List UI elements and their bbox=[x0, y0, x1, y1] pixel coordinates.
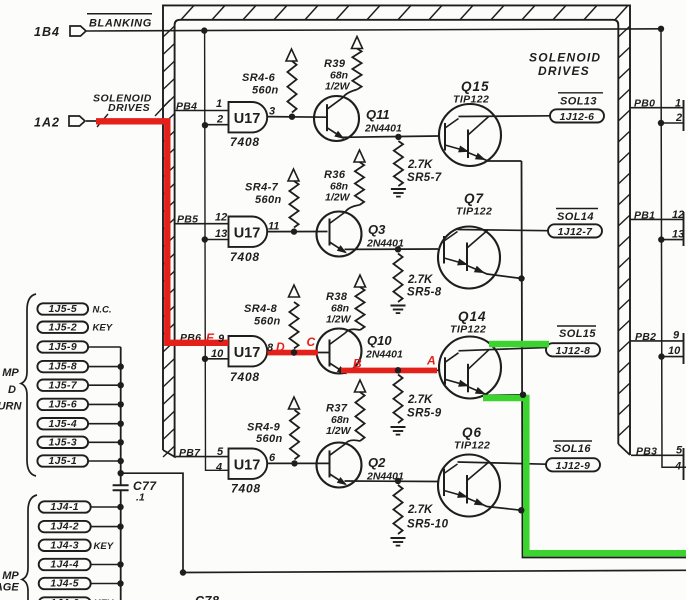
svg-text:2N4401: 2N4401 bbox=[364, 123, 402, 135]
node Q7 emitter junction bbox=[518, 275, 524, 281]
svg-text:7408: 7408 bbox=[231, 482, 261, 496]
wire TIP emitter return bus bbox=[522, 161, 686, 558]
and-gate U17a bbox=[229, 102, 268, 132]
svg-text:R39: R39 bbox=[324, 58, 346, 70]
svg-text:SR5-10: SR5-10 bbox=[407, 519, 449, 531]
svg-text:1J4-4: 1J4-4 bbox=[50, 560, 79, 571]
svg-text:Q10: Q10 bbox=[367, 333, 392, 348]
svg-text:D: D bbox=[8, 384, 16, 396]
svg-text:1J5-5: 1J5-5 bbox=[48, 304, 77, 315]
node pin13 junction bbox=[202, 236, 208, 242]
svg-text:A: A bbox=[426, 354, 436, 368]
resistor R39 68 1/2W bbox=[352, 49, 361, 90]
svg-text:SR4-9: SR4-9 bbox=[247, 422, 281, 434]
svg-text:R38: R38 bbox=[326, 291, 348, 303]
svg-text:SR5-9: SR5-9 bbox=[407, 408, 442, 420]
ground SR5-10 bbox=[391, 537, 406, 539]
brace 1J4 group bbox=[22, 495, 37, 600]
svg-text:MP: MP bbox=[2, 367, 19, 379]
pad 1J12-6 bbox=[550, 109, 604, 122]
pad 1J4-6 (clipped) bbox=[39, 597, 91, 600]
svg-text:SOL15: SOL15 bbox=[559, 328, 596, 340]
wire Q3 emitter to Q7 base bbox=[345, 248, 439, 250]
svg-text:1J4-5: 1J4-5 bbox=[50, 579, 79, 590]
svg-text:10: 10 bbox=[668, 345, 681, 357]
svg-text:R36: R36 bbox=[324, 169, 346, 181]
svg-text:1/2W: 1/2W bbox=[325, 192, 351, 204]
connector board-edge hatching bbox=[163, 5, 630, 455]
svg-text:1J4-1: 1J4-1 bbox=[50, 502, 79, 513]
svg-text:8: 8 bbox=[267, 342, 274, 354]
resistor SR4-7 560 bbox=[289, 181, 298, 228]
svg-text:4: 4 bbox=[674, 461, 681, 473]
svg-text:Q6: Q6 bbox=[462, 425, 482, 440]
wire blanking right pin 10 bbox=[662, 356, 684, 358]
svg-text:3: 3 bbox=[269, 106, 275, 118]
pad 1J12-8 bbox=[546, 343, 600, 356]
wire Q2 emitter to Q6 base bbox=[345, 480, 439, 483]
pad 1J5-2 bbox=[37, 322, 88, 333]
node Q3 base pull-up bbox=[291, 228, 297, 234]
svg-text:1J12-6: 1J12-6 bbox=[560, 112, 595, 123]
svg-text:1/2W: 1/2W bbox=[325, 81, 351, 93]
svg-text:4: 4 bbox=[215, 462, 222, 474]
wire blanking to U17 pin 13 bbox=[205, 239, 229, 241]
arrow 1B4 bbox=[70, 26, 86, 36]
wire blanking right pin 2 bbox=[661, 122, 684, 124]
node blanking-right junction bbox=[658, 26, 664, 32]
svg-text:11: 11 bbox=[268, 221, 279, 233]
svg-text:AGE: AGE bbox=[0, 582, 19, 594]
and-gate U17b bbox=[229, 217, 268, 247]
wire blanking vertical right bus bbox=[661, 29, 686, 468]
wire U17c out to Q10 base bbox=[268, 352, 330, 354]
svg-text:1: 1 bbox=[216, 98, 222, 110]
node right pin13 junction bbox=[658, 236, 664, 242]
pad 1J4-3 bbox=[39, 540, 91, 551]
pad 1J4-4 bbox=[39, 559, 91, 570]
svg-text:B: B bbox=[353, 357, 362, 371]
resistor SR5-9 2.7K bbox=[393, 375, 402, 424]
resistor R36 68 1/2W bbox=[355, 162, 364, 205]
wire PB7 to U17 pin 5 bbox=[176, 456, 229, 458]
node SR5-8 junction bbox=[395, 246, 401, 252]
ground SR5-7 bbox=[391, 188, 406, 190]
svg-text:U17: U17 bbox=[234, 111, 261, 127]
svg-text:1J4-2: 1J4-2 bbox=[50, 522, 79, 533]
svg-text:2N4401: 2N4401 bbox=[365, 349, 403, 361]
resistor SR4-6 560 bbox=[287, 61, 296, 113]
highlight red U17 out to Q10 base bbox=[268, 350, 319, 356]
ground SR5-9 bbox=[391, 426, 406, 428]
node blanking-left junction bbox=[201, 27, 207, 33]
and-gate U17c bbox=[229, 336, 268, 366]
svg-text:560n: 560n bbox=[254, 316, 281, 328]
wire entry chamfer bbox=[97, 114, 108, 127]
svg-text:9: 9 bbox=[218, 333, 225, 345]
node 1J5 bus to C77 branch bbox=[118, 470, 124, 476]
pad 1J5-3 bbox=[37, 437, 88, 448]
wire Q10 emitter to Q14 base bbox=[345, 369, 440, 371]
svg-text:SOL14: SOL14 bbox=[557, 211, 594, 223]
pad 1J5-6 bbox=[37, 399, 88, 410]
resistor SR4-9 560 bbox=[290, 410, 299, 459]
svg-text:1B4: 1B4 bbox=[34, 25, 60, 39]
highlight red trace 1A2 to U17 pin9 bbox=[96, 121, 229, 342]
svg-text:5: 5 bbox=[217, 446, 224, 458]
svg-text:Q14: Q14 bbox=[458, 309, 487, 324]
wire PB4 to U17 pin 1 bbox=[175, 110, 229, 112]
node SR5-7 junction bbox=[395, 134, 401, 140]
resistor SR5-8 2.7K bbox=[393, 254, 402, 303]
svg-text:1J5-8: 1J5-8 bbox=[48, 362, 77, 373]
and-gate U17d bbox=[229, 449, 268, 479]
pad 1J12-7 bbox=[548, 224, 602, 237]
pad 1J5-8 bbox=[37, 361, 88, 372]
svg-text:10: 10 bbox=[211, 348, 224, 360]
svg-text:DRIVES: DRIVES bbox=[108, 102, 150, 114]
wire branch to bottom rail bbox=[121, 473, 183, 572]
svg-text:N.C.: N.C. bbox=[93, 305, 112, 316]
svg-text:1J12-8: 1J12-8 bbox=[556, 346, 591, 357]
svg-text:2.7K: 2.7K bbox=[407, 159, 433, 171]
node pin10 junction bbox=[202, 356, 208, 362]
pad 1J4-5 bbox=[39, 578, 91, 589]
svg-text:.1: .1 bbox=[136, 492, 145, 504]
svg-text:1J5-7: 1J5-7 bbox=[48, 380, 77, 391]
node right pin2 junction bbox=[658, 120, 664, 126]
wire PB1 input bbox=[630, 218, 684, 220]
svg-text:BLANKING: BLANKING bbox=[89, 18, 152, 30]
svg-text:2: 2 bbox=[216, 114, 223, 126]
svg-text:2.7K: 2.7K bbox=[407, 274, 433, 286]
svg-text:1J12-9: 1J12-9 bbox=[556, 461, 591, 472]
svg-text:SR5-8: SR5-8 bbox=[407, 287, 442, 299]
pad 1J5-1 bbox=[37, 455, 88, 466]
svg-text:C78: C78 bbox=[195, 594, 219, 600]
node Q14 emitter junction bbox=[520, 392, 526, 398]
node Q10 pull-up (over red) bbox=[291, 349, 297, 355]
wire Q11 emitter to Q15 base bbox=[342, 136, 439, 137]
svg-text:1J12-7: 1J12-7 bbox=[558, 227, 594, 238]
svg-text:7408: 7408 bbox=[230, 135, 260, 149]
pad 1J4-1 bbox=[39, 501, 91, 512]
wire 1A2 entry bbox=[86, 120, 98, 122]
svg-text:13: 13 bbox=[215, 228, 227, 240]
node bottom rail junction bbox=[180, 569, 186, 575]
node Q2 base pull-up bbox=[291, 460, 297, 466]
svg-text:TIP122: TIP122 bbox=[450, 324, 486, 336]
transistor Q6 bbox=[438, 455, 500, 517]
svg-text:7408: 7408 bbox=[230, 370, 260, 384]
node SR5-9 junction (over red) bbox=[395, 367, 401, 373]
wire blanking right pin 13 bbox=[661, 239, 683, 241]
svg-text:TIP122: TIP122 bbox=[453, 94, 489, 106]
wire U17d out to Q2 base bbox=[268, 462, 329, 464]
svg-text:1A2: 1A2 bbox=[34, 116, 60, 130]
wire U17b out to Q3 base bbox=[268, 231, 328, 233]
svg-text:DRIVES: DRIVES bbox=[538, 64, 590, 78]
wire PB3 input bbox=[631, 454, 684, 456]
pad 1J4-2 bbox=[39, 521, 91, 532]
wire 1J5 return bus bbox=[120, 347, 122, 485]
resistor R37 68 1/2W bbox=[355, 392, 364, 441]
svg-text:E: E bbox=[206, 331, 215, 345]
svg-text:1J5-1: 1J5-1 bbox=[48, 456, 77, 467]
ground SR5-8 bbox=[391, 305, 406, 307]
svg-text:12: 12 bbox=[672, 209, 684, 221]
svg-text:SOLENOID: SOLENOID bbox=[529, 51, 601, 65]
node SR5-10 junction bbox=[395, 478, 401, 484]
brace 1J5 group bbox=[21, 294, 36, 476]
gate edge (right row1) bbox=[683, 100, 685, 131]
wire PB2 input bbox=[630, 340, 684, 342]
transistor Q11 bbox=[314, 96, 359, 141]
wire blanking to U17 pin 2 bbox=[205, 124, 229, 126]
svg-text:TIP122: TIP122 bbox=[454, 440, 490, 452]
resistor SR5-7 2.7K bbox=[394, 141, 403, 186]
node Q14 emitter junction (over green) bbox=[520, 392, 526, 398]
wire PB6 to U17 pin 9 bbox=[175, 342, 229, 344]
gate edge (right row4) bbox=[683, 448, 685, 480]
pad 1J12-9 bbox=[546, 458, 600, 471]
svg-text:C: C bbox=[307, 335, 316, 349]
svg-text:5: 5 bbox=[676, 445, 683, 457]
node SR5-9 junction bbox=[395, 367, 401, 373]
node Q10 base pull-up bbox=[291, 349, 297, 355]
wire blanking vertical left bus bbox=[205, 31, 229, 471]
transistor Q14 bbox=[439, 337, 501, 399]
svg-text:MP: MP bbox=[2, 570, 19, 582]
svg-text:1J5-3: 1J5-3 bbox=[48, 437, 77, 448]
svg-text:560n: 560n bbox=[256, 433, 283, 445]
arrow 1A2 bbox=[69, 116, 85, 126]
transistor Q7 bbox=[438, 227, 500, 289]
svg-text:SOL13: SOL13 bbox=[560, 96, 597, 108]
wire U17a out to Q11 base bbox=[268, 116, 328, 119]
svg-text:SOL16: SOL16 bbox=[554, 443, 591, 455]
node pin2 junction bbox=[202, 122, 208, 128]
transistor Q15 bbox=[439, 104, 501, 166]
resistor SR5-10 2.7K bbox=[393, 485, 402, 534]
node Q6 emitter junction (over green) bbox=[518, 507, 524, 513]
svg-text:KEY: KEY bbox=[93, 323, 114, 334]
svg-text:U17: U17 bbox=[234, 345, 261, 361]
resistor SR4-8 560 bbox=[289, 302, 298, 349]
svg-text:2: 2 bbox=[675, 112, 682, 124]
svg-text:1/2W: 1/2W bbox=[326, 425, 352, 437]
wire BLANKING 1B4 to right bus bbox=[87, 29, 662, 31]
svg-text:1J4-3: 1J4-3 bbox=[50, 540, 79, 551]
svg-text:SR4-8: SR4-8 bbox=[244, 303, 278, 315]
svg-text:1J5-9: 1J5-9 bbox=[48, 342, 77, 353]
gate edge (right row3) bbox=[683, 333, 685, 364]
svg-text:D: D bbox=[276, 340, 285, 354]
wire blanking to U17 pin 10 bbox=[205, 358, 229, 360]
resistor R38 68 1/2W bbox=[355, 287, 364, 330]
svg-text:7408: 7408 bbox=[230, 250, 260, 264]
svg-text:KEY: KEY bbox=[94, 541, 115, 552]
transistor Q3 bbox=[317, 212, 362, 257]
svg-text:Q7: Q7 bbox=[464, 191, 485, 206]
wire bottom rail bbox=[183, 570, 686, 572]
node Q11 base pull-up bbox=[289, 114, 295, 120]
svg-text:URN: URN bbox=[0, 401, 22, 413]
svg-text:6: 6 bbox=[269, 452, 276, 464]
svg-text:U17: U17 bbox=[234, 458, 261, 474]
capacitor C77 bbox=[113, 484, 129, 486]
svg-text:SR4-6: SR4-6 bbox=[242, 72, 276, 84]
svg-text:1J5-2: 1J5-2 bbox=[48, 322, 77, 333]
svg-text:1J5-6: 1J5-6 bbox=[48, 400, 77, 411]
node Q6 emitter junction bbox=[519, 507, 525, 513]
svg-text:1J5-4: 1J5-4 bbox=[48, 419, 77, 430]
svg-text:1/2W: 1/2W bbox=[326, 314, 352, 326]
transistor Q10 bbox=[317, 329, 362, 374]
svg-text:U17: U17 bbox=[234, 226, 261, 242]
node right pin10 junction bbox=[658, 353, 664, 359]
gate edge (right row2) bbox=[683, 212, 685, 246]
highlight green Q14 collector to 1J12-8 bbox=[489, 341, 549, 348]
svg-text:Q2: Q2 bbox=[368, 455, 386, 470]
wire PB5 to U17 pin 12 bbox=[175, 223, 229, 225]
pad 1J5-7 bbox=[37, 380, 88, 391]
svg-text:TIP122: TIP122 bbox=[456, 206, 492, 218]
pad 1J5-9 bbox=[37, 341, 88, 352]
pad 1J5-5 bbox=[37, 303, 88, 314]
svg-text:2.7K: 2.7K bbox=[407, 504, 433, 516]
transistor Q2 bbox=[317, 443, 362, 488]
svg-text:560n: 560n bbox=[252, 85, 279, 97]
wire PB0 input bbox=[630, 107, 684, 109]
svg-text:2.7K: 2.7K bbox=[407, 394, 433, 406]
svg-text:13: 13 bbox=[672, 229, 684, 241]
svg-text:560n: 560n bbox=[255, 194, 282, 206]
svg-text:9: 9 bbox=[673, 330, 680, 342]
svg-text:12: 12 bbox=[215, 212, 227, 224]
svg-text:Q15: Q15 bbox=[461, 79, 490, 94]
svg-text:1: 1 bbox=[675, 98, 681, 110]
highlight green Q14 emitter to bottom edge bbox=[483, 398, 686, 553]
svg-text:Q11: Q11 bbox=[366, 107, 390, 122]
svg-text:Q3: Q3 bbox=[368, 222, 386, 237]
svg-text:R37: R37 bbox=[326, 403, 348, 415]
pad 1J5-4 bbox=[37, 418, 88, 429]
highlight red Q10 emitter to Q14 base bbox=[341, 368, 437, 374]
svg-text:SR5-7: SR5-7 bbox=[407, 172, 442, 184]
svg-text:SR4-7: SR4-7 bbox=[245, 182, 279, 194]
